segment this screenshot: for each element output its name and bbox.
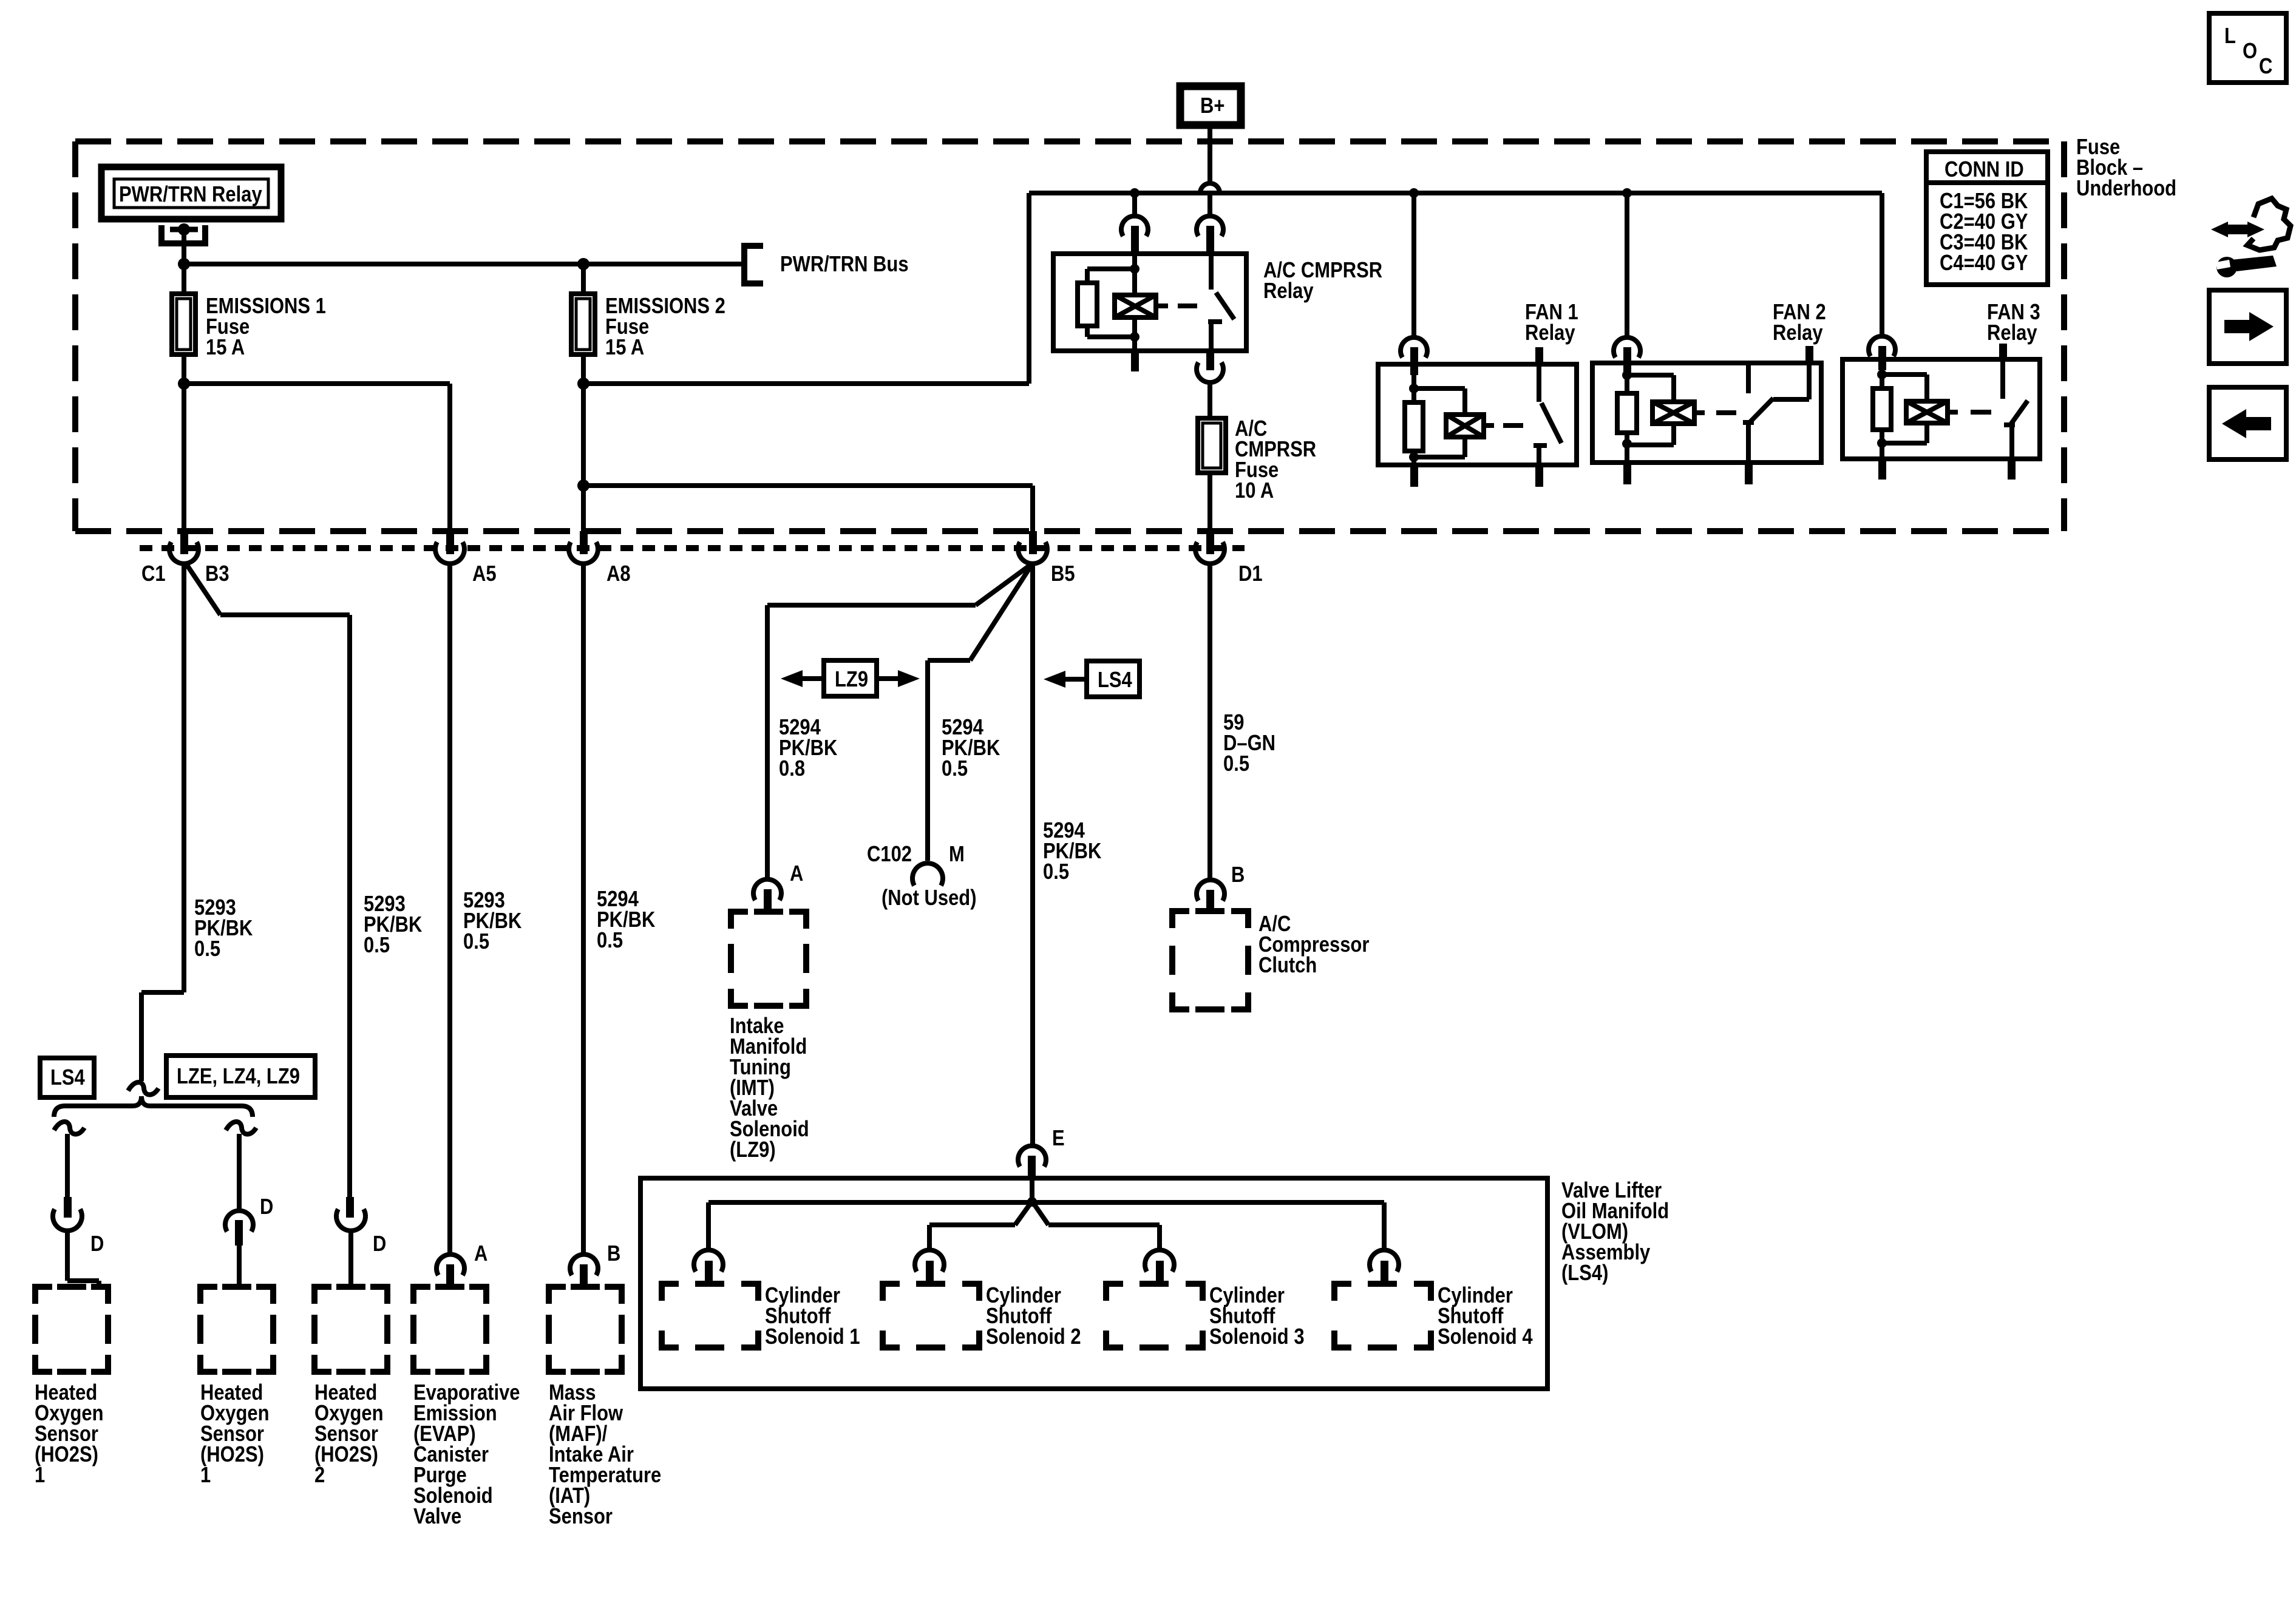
wire A/C fuse to D1 <box>1207 473 1212 531</box>
wire VLOM internal bus <box>708 1200 1384 1205</box>
connector dome MAF pin B <box>570 1255 598 1275</box>
connector A5 pin stub <box>446 531 454 554</box>
B+ terminal box <box>1180 86 1241 125</box>
wire drop solenoid 3 <box>1157 1225 1162 1252</box>
icon LOC box <box>2209 13 2286 83</box>
connector dome VLOM pin E <box>1018 1146 1046 1167</box>
wire IMT drop <box>765 605 770 879</box>
connector A8 pin stub <box>580 531 588 554</box>
connector dome C102 M (not used) <box>912 863 943 886</box>
connector cup HO2S 2 pin D <box>346 1197 354 1218</box>
label B5 <box>1051 563 1075 584</box>
fuse EMISSIONS 1 <box>182 264 186 294</box>
relay A/C CMPRSR box <box>1053 254 1246 351</box>
connector dome solenoid 1 <box>694 1250 723 1272</box>
pin stub A/C relay coil low <box>1131 351 1139 371</box>
squiggle HO2S 1 LS4 wire top <box>54 1122 84 1134</box>
icon arrow back box <box>2209 387 2286 459</box>
icon hand with wrench: double arrow <box>2211 198 2291 277</box>
connector dome solenoid 4 <box>1370 1250 1399 1272</box>
variant box LS4 (bottom left) <box>40 1058 94 1097</box>
connector D1 cup <box>1195 542 1224 564</box>
label 5293 <box>364 893 422 955</box>
wire EMISSIONS 1 output to A5 <box>184 381 450 386</box>
label C <box>2259 56 2272 76</box>
label Heated <box>314 1382 384 1485</box>
label 59 <box>1223 712 1275 774</box>
resistor FAN 3 relay <box>1873 388 1891 430</box>
switch FAN 2 relay <box>1746 363 1751 393</box>
wire drop solenoid 4 <box>1382 1202 1387 1252</box>
label Cylinder <box>1438 1285 1533 1347</box>
brace over engine variants <box>54 1096 253 1117</box>
connector D1 pin stub <box>1206 531 1214 554</box>
label A/C CMPRSR <box>1263 260 1382 301</box>
coil A/C relay <box>1115 295 1156 317</box>
component box MAF/IAT Sensor <box>549 1287 622 1372</box>
coil FAN 1 relay <box>1414 386 1465 391</box>
B+ bus wire inside fuse block <box>1029 191 1882 195</box>
CONN ID table <box>1926 152 2048 285</box>
label B3 <box>205 563 229 584</box>
resistor FAN 1 relay <box>1405 402 1423 451</box>
resistor FAN 2 relay <box>1617 393 1637 433</box>
label FAN 3 <box>1987 302 2040 343</box>
label D <box>90 1233 104 1254</box>
pin stubs FAN 2 relay <box>1805 346 1813 363</box>
fuse A/C CMPRSR <box>1198 418 1226 473</box>
connector cavity dome A/C relay coil pin <box>1132 193 1137 217</box>
icon wrench <box>2232 256 2277 271</box>
label LS4 <box>50 1067 85 1088</box>
label LS4 <box>1098 670 1132 690</box>
label 5293 <box>463 890 521 952</box>
connector B5 pin stub <box>1029 531 1037 554</box>
PWR/TRN relay output pin bracket <box>161 225 205 243</box>
label A/C <box>1258 914 1369 975</box>
component box Cylinder Shutoff Solenoid 1 <box>662 1284 758 1347</box>
label C1=56 BK <box>1940 191 2028 273</box>
label PWR/TRN Bus <box>780 254 909 274</box>
wire B5 diagonal to C102 branch <box>970 563 1033 660</box>
squiggle HO2S 1 LZE wire top <box>226 1122 256 1134</box>
connector C1 cup <box>169 542 199 564</box>
label D <box>373 1233 386 1254</box>
label M <box>949 844 965 864</box>
wire drop solenoid 1 <box>706 1202 711 1252</box>
connector dome IMT pin A <box>753 880 781 900</box>
label 5294 <box>597 889 655 951</box>
connector dome A/C clutch pin B <box>1197 880 1224 901</box>
node EMISSIONS 2 output to bus <box>577 378 589 390</box>
fuse EMISSIONS 2 <box>581 264 586 294</box>
label Fuse <box>2076 137 2176 198</box>
label FAN 2 <box>1773 302 1826 343</box>
label Cylinder <box>765 1285 860 1347</box>
resistor A/C relay <box>1087 266 1135 271</box>
label Evaporative <box>413 1382 520 1527</box>
icon arrow next box <box>2209 290 2286 364</box>
label 5294 <box>1043 820 1101 882</box>
relay FAN 1 <box>1411 193 1416 339</box>
connector C1 pin stub <box>180 531 188 554</box>
connector cup HO2S 1 LS4 pin D <box>53 1209 82 1231</box>
wire B5 to VLOM E <box>1030 564 1035 1145</box>
label D <box>260 1196 273 1217</box>
label Cylinder <box>986 1285 1081 1347</box>
label 5293 <box>194 897 253 959</box>
label Valve Lifter <box>1561 1180 1669 1283</box>
component box Heated Oxygen Sensor (HO2S) 1 LS4 <box>35 1287 108 1372</box>
label 5294 <box>942 717 1000 779</box>
wire C1 to HO2S brace <box>182 564 186 992</box>
connector A5 cup <box>435 542 464 564</box>
label (Not Used) <box>881 887 977 908</box>
coil FAN 3 relay <box>1882 372 1927 377</box>
variant box LZE, LZ4, LZ9 <box>166 1056 315 1097</box>
label A8 <box>606 563 631 584</box>
wire D1 to A/C clutch <box>1207 564 1212 880</box>
wire relay pin down to bus <box>182 229 186 264</box>
wire HO2S 1 LS4 <box>65 1134 70 1198</box>
connector cavity dome A/C relay switch pin <box>1197 216 1223 236</box>
label Heated <box>35 1382 104 1485</box>
label PWR/TRN Relay <box>119 184 262 205</box>
node PWR/TRN bus at EMISSIONS 1 <box>178 258 190 270</box>
label 5294 <box>779 717 837 779</box>
label Intake <box>730 1015 809 1160</box>
component box Cylinder Shutoff Solenoid 2 <box>883 1284 979 1347</box>
relay A/C coil line <box>1132 256 1137 295</box>
component box EVAP Canister Purge Solenoid Valve <box>413 1287 486 1372</box>
PWR/TRN Relay label box <box>101 167 281 219</box>
wire EMISSIONS 2 output to B+ bus riser <box>583 381 1029 386</box>
label B+ <box>1200 95 1224 116</box>
node bus to FAN1 <box>1409 188 1419 198</box>
label B <box>607 1243 620 1264</box>
connector dome solenoid 3 <box>1145 1250 1174 1272</box>
label A5 <box>472 563 497 584</box>
variant box LS4 with arrow <box>1087 661 1140 697</box>
label E <box>1052 1128 1065 1148</box>
pin stubs FAN 1 relay <box>1535 347 1543 364</box>
label FAN 1 <box>1525 302 1578 343</box>
pin stubs FAN 3 relay <box>1999 344 2007 359</box>
relay FAN 2 <box>1625 193 1629 339</box>
fuse block dashed border <box>75 141 2064 531</box>
connector dotted line <box>140 545 1245 551</box>
wire A5 to EVAP valve <box>447 564 452 1254</box>
wire B5 diagonal to IMT branch <box>976 563 1033 605</box>
connector dome EVAP pin A <box>436 1255 464 1275</box>
component box Cylinder Shutoff Solenoid 4 <box>1334 1284 1431 1347</box>
component box A/C Compressor Clutch <box>1172 911 1248 1009</box>
splice squiggle above brace <box>128 1082 158 1095</box>
wire bus right end down to FAN3 coil <box>1880 193 1884 337</box>
label Cylinder <box>1209 1285 1305 1347</box>
label A <box>790 863 803 884</box>
label A <box>474 1243 487 1264</box>
wire B+ down <box>1207 125 1212 183</box>
wire B3 branch to HO2S 2 <box>186 563 220 615</box>
node EMISSIONS 1 output <box>178 378 190 390</box>
PWR/TRN Bus terminal bracket <box>744 246 763 283</box>
wire bus left end down to EMISSIONS 2 output <box>1027 193 1031 384</box>
label A/C <box>1235 418 1316 501</box>
label L <box>2224 25 2236 46</box>
label EMISSIONS 2 <box>605 296 725 358</box>
label LZE, LZ4, LZ9 <box>177 1066 300 1086</box>
node bus to FAN2 <box>1622 188 1632 198</box>
connector dome solenoid 2 <box>915 1250 944 1272</box>
icon hand outline <box>2247 198 2291 250</box>
wire VLOM Y split <box>1015 1201 1032 1225</box>
wire drop solenoid 2 <box>927 1225 932 1252</box>
node EMISSIONS 2 output to B5 <box>577 480 589 492</box>
node bus to A/C relay coil <box>1130 188 1140 198</box>
relay FAN 3 <box>1880 193 1884 337</box>
label D1 <box>1238 563 1263 584</box>
component box Heated Oxygen Sensor (HO2S) 2 <box>314 1287 387 1372</box>
wire to A/C CMPRSR fuse <box>1207 382 1212 418</box>
wire EMISSIONS 2 output to B5 <box>583 483 1033 488</box>
label CONN ID <box>1944 159 2024 180</box>
wire HO2S 1 LZE <box>237 1134 242 1210</box>
switch A/C relay <box>1209 254 1214 290</box>
VLOM assembly box <box>640 1178 1547 1389</box>
component box IMT Valve Solenoid <box>731 912 806 1006</box>
switch FAN 3 relay <box>2000 359 2005 399</box>
PWR/TRN bus wire <box>184 262 744 266</box>
wire A8 to MAF sensor <box>581 564 586 1254</box>
connector A8 cup <box>569 542 598 564</box>
node PWR/TRN bus at EMISSIONS 2 <box>577 258 589 270</box>
label LZ9 <box>835 669 868 690</box>
pin stub A/C relay switch out <box>1206 351 1214 370</box>
connector B5 cup <box>1018 542 1047 564</box>
component box Cylinder Shutoff Solenoid 3 <box>1106 1284 1203 1347</box>
label Mass <box>549 1382 661 1527</box>
connector dome HO2S 1 LZE pin D <box>225 1211 253 1232</box>
switch FAN 1 relay <box>1537 364 1541 402</box>
label C1 <box>141 563 166 584</box>
variant box LZ9 with arrows <box>824 660 877 696</box>
label O <box>2243 41 2257 61</box>
label Heated <box>200 1382 270 1485</box>
connector cavity cup below A/C relay <box>1197 362 1223 382</box>
coil FAN 2 relay <box>1627 373 1674 378</box>
component box Heated Oxygen Sensor (HO2S) 1 LZE <box>200 1287 273 1372</box>
label B <box>1231 864 1245 885</box>
wire hop arc over bus at B+ crossing <box>1200 183 1220 193</box>
label EMISSIONS 1 <box>206 296 326 358</box>
label C102 <box>867 844 912 864</box>
